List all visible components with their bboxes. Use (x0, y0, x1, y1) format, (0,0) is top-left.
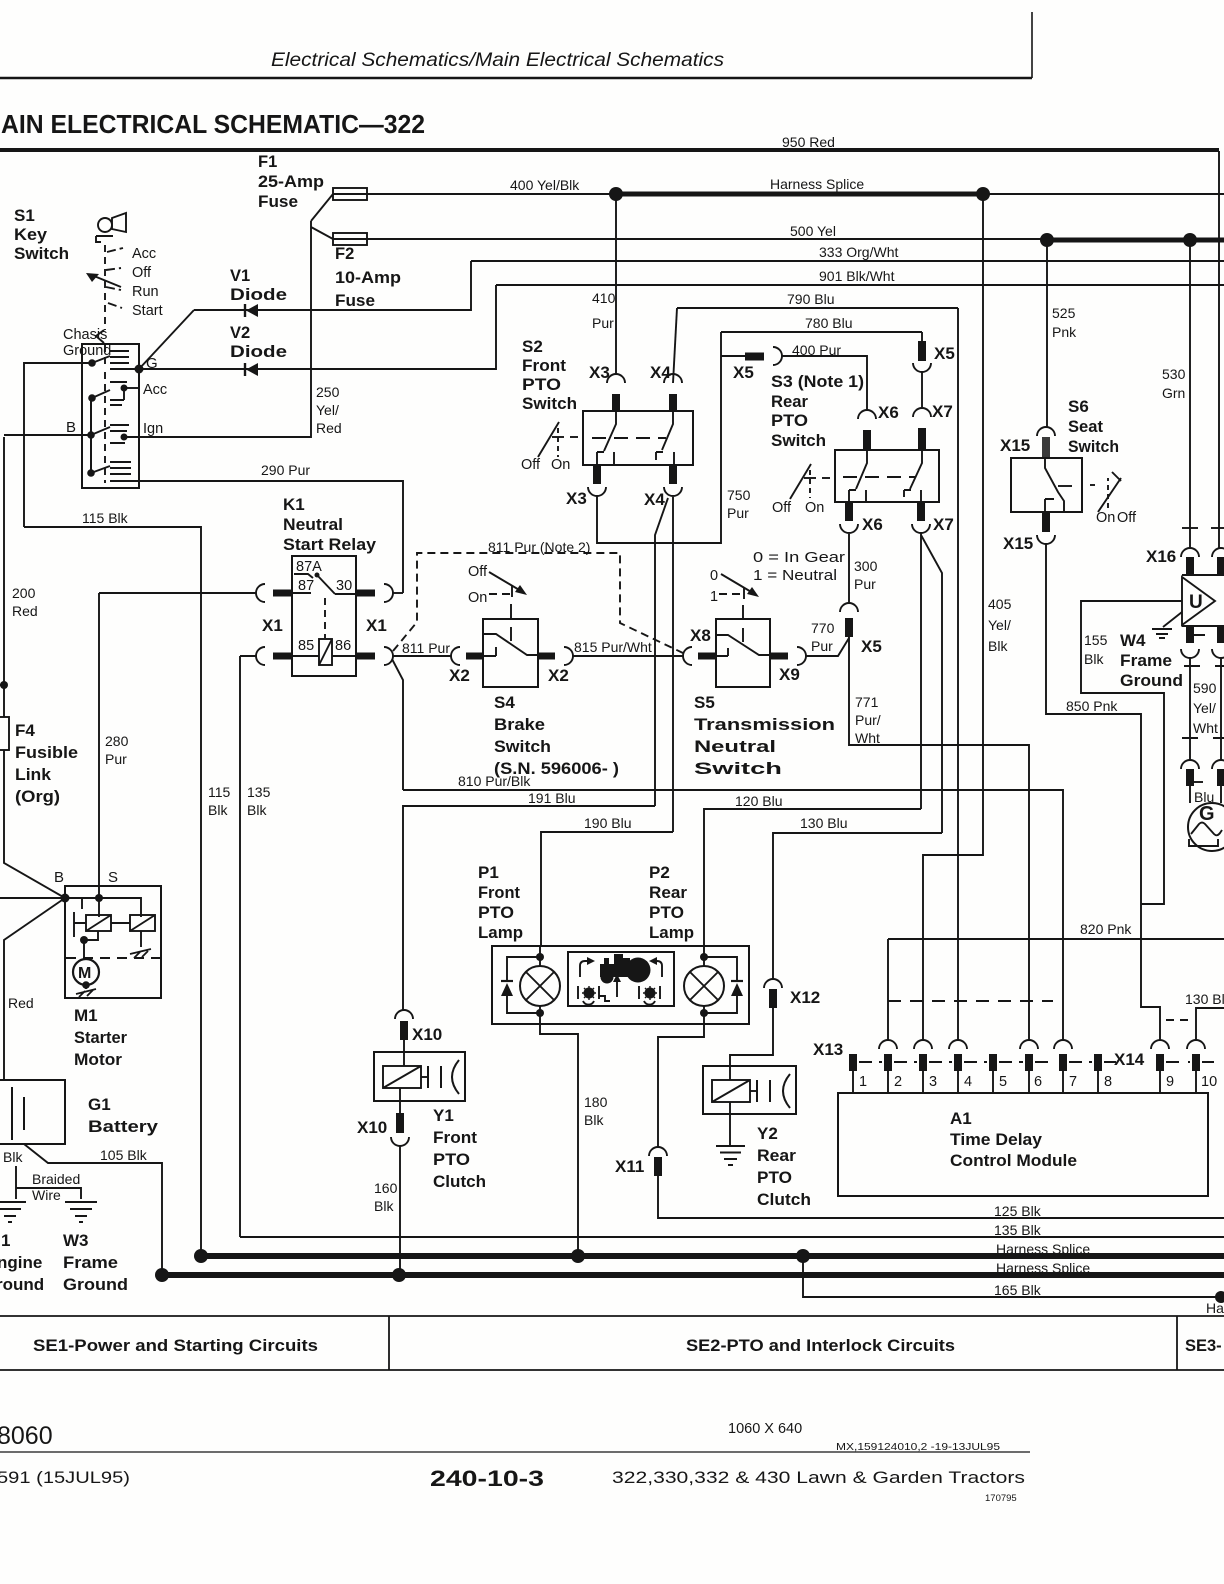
X14 pin 10 (1187, 1040, 1205, 1049)
svg-text:Harness Splice: Harness Splice (770, 176, 864, 192)
svg-text:X7: X7 (932, 402, 953, 421)
S5 labels (694, 693, 835, 778)
junction dot 165 right (1215, 1291, 1224, 1303)
svg-text:X10: X10 (412, 1025, 442, 1044)
svg-text:Clutch: Clutch (757, 1190, 811, 1209)
wire 200 Red (3, 437, 5, 717)
tractor mid link (599, 996, 610, 1001)
svg-text:X2: X2 (548, 666, 569, 685)
footer rule (0, 1451, 1030, 1453)
wire chassis ground from G contact (24, 363, 92, 527)
svg-text:Front: Front (478, 883, 520, 902)
A1 labels (950, 1109, 1077, 1170)
connector X1 left pin87 (256, 584, 265, 602)
S6 selector (1090, 484, 1098, 486)
connector X1 right pin86 (332, 655, 356, 657)
svg-text:F4: F4 (15, 721, 35, 740)
wire 400 Yel/Blk (367, 193, 616, 195)
harness label cut right (1206, 1300, 1224, 1316)
svg-text:591 (15JUL95): 591 (15JUL95) (0, 1469, 130, 1487)
junction dot 500/530 (1183, 233, 1197, 247)
wire 770 Pur (806, 638, 849, 656)
S1 key switch label (14, 206, 69, 263)
wire 410 Pur (615, 194, 617, 374)
connector to generator left (1181, 760, 1199, 769)
junction dot 500/525 (1040, 233, 1054, 247)
connector X16 left tick (1182, 527, 1198, 529)
contact Acc (88, 394, 96, 402)
tractor arrows (580, 961, 590, 977)
wire 790 Blu drop to X4 (673, 308, 677, 383)
wire 135 Blk from pin85 (240, 656, 256, 1237)
P1 diode branch (507, 957, 540, 1013)
svg-text:Yel/: Yel/ (1193, 700, 1216, 716)
Y2 ground (729, 1102, 731, 1145)
Y1 labels (433, 1106, 486, 1191)
svg-text:500 Yel: 500 Yel (790, 223, 836, 239)
svg-text:Y2: Y2 (757, 1124, 778, 1143)
svg-text:190 Blu: 190 Blu (584, 815, 631, 831)
SE band bottom line (0, 1369, 1224, 1371)
svg-text:Ground: Ground (63, 343, 111, 359)
svg-text:On: On (551, 457, 570, 473)
svg-text:Lamp: Lamp (478, 923, 523, 942)
svg-text:250: 250 (316, 384, 340, 400)
svg-text:PTO: PTO (522, 375, 561, 394)
svg-text:Transmission: Transmission (694, 715, 835, 734)
svg-text:770: 770 (811, 620, 835, 636)
wire 780 Blu (721, 331, 922, 333)
svg-text:PTO: PTO (649, 903, 684, 922)
X13 pin 8 (1094, 1054, 1102, 1071)
braided wire bracket (16, 1166, 81, 1199)
svg-text:X3: X3 (566, 489, 587, 508)
svg-text:Time Delay: Time Delay (950, 1130, 1043, 1149)
K1 blade (317, 575, 335, 594)
svg-text:Pur: Pur (592, 315, 614, 331)
wire G to V1 diagonal (139, 310, 194, 369)
svg-text:Brake: Brake (494, 715, 545, 734)
svg-text:Start Relay: Start Relay (283, 535, 377, 554)
svg-text:Switch: Switch (522, 394, 577, 413)
M1 labels (74, 1006, 127, 1069)
svg-text:AIN ELECTRICAL SCHEMATIC—322: AIN ELECTRICAL SCHEMATIC—322 (1, 109, 425, 139)
S2 internal dashed (592, 437, 666, 439)
P2 lamp labels (649, 863, 694, 942)
P1 lamp labels (478, 863, 523, 942)
SE band top line (0, 1315, 1224, 1317)
wire 530 Grn (1189, 240, 1191, 548)
wire 155 Blk (1081, 601, 1182, 904)
K1 pin labels (298, 578, 352, 654)
svg-text:Pur/: Pur/ (855, 712, 881, 728)
wire 180 Blk from P1 (540, 1024, 578, 1256)
svg-text:S: S (108, 869, 118, 886)
svg-text:1060 X 640: 1060 X 640 (728, 1421, 802, 1437)
wire 810 Pur/Blk run (403, 790, 1063, 1040)
svg-text:790 Blu: 790 Blu (787, 291, 834, 307)
svg-text:105 Blk: 105 Blk (100, 1147, 148, 1163)
svg-text:530: 530 (1162, 366, 1186, 382)
K1 armature dashed link (324, 598, 326, 638)
wire 250 Yel/Red vertical from fuses to Ign (139, 221, 311, 437)
S2 selector (538, 422, 559, 457)
svg-text:1: 1 (859, 1074, 867, 1090)
X13 dashes (859, 1061, 1116, 1063)
svg-text:Chasis: Chasis (63, 327, 107, 343)
svg-text:(Org): (Org) (15, 787, 60, 806)
svg-text:Switch: Switch (1068, 437, 1119, 456)
wire F4 to starter B (4, 750, 65, 898)
tractor gear right (645, 988, 656, 999)
svg-text:155: 155 (1084, 632, 1108, 648)
title rule / top border line (0, 148, 1219, 150)
wire 771 Pur/Wht (849, 637, 1029, 1040)
svg-text:X12: X12 (790, 988, 820, 1007)
wire 780 Blu left drop to 750 node (720, 332, 722, 356)
svg-text:X9: X9 (779, 665, 800, 684)
lamp P2 (703, 946, 705, 1013)
svg-text:Diode: Diode (230, 286, 287, 304)
svg-text:1: 1 (1, 1231, 10, 1250)
footer texts (0, 1421, 1025, 1504)
wire 130 Blk right (1196, 1008, 1224, 1040)
svg-text:X10: X10 (357, 1118, 387, 1137)
svg-text:X1: X1 (262, 616, 283, 635)
bus1 dot 165 (796, 1249, 810, 1263)
svg-text:Wht: Wht (855, 730, 880, 746)
wire 191 Blu (403, 806, 655, 1010)
svg-text:3: 3 (929, 1074, 937, 1090)
contact St (87, 469, 95, 477)
wire 280 Pur (98, 593, 100, 898)
connector X16 right (1212, 548, 1224, 557)
svg-text:Rear: Rear (757, 1146, 796, 1165)
svg-text:5: 5 (999, 1074, 1007, 1090)
X13 pin 5 (989, 1054, 997, 1071)
X13 pin 4 (949, 1040, 967, 1049)
S3 labels (771, 372, 864, 450)
wire X7 bottom diagonal to 130 Blu (921, 535, 942, 833)
svg-text:X7: X7 (933, 515, 954, 534)
svg-text:Red: Red (316, 420, 342, 436)
svg-text:Blk: Blk (208, 802, 228, 818)
connector X3 top (589, 363, 610, 382)
svg-text:Front: Front (433, 1128, 477, 1147)
S2 pole1 blade (604, 412, 616, 451)
diode V2 (230, 324, 287, 361)
svg-text:Front: Front (522, 356, 566, 375)
contact G (88, 359, 96, 367)
connector X16 left (1181, 548, 1199, 557)
svg-text:SE3-: SE3- (1185, 1337, 1222, 1355)
svg-text:130 Blu: 130 Blu (800, 815, 847, 831)
svg-text:811 Pur: 811 Pur (402, 640, 450, 656)
svg-text:135 Blk: 135 Blk (994, 1222, 1042, 1238)
svg-text:300: 300 (854, 558, 878, 574)
svg-text:X3: X3 (589, 363, 610, 382)
diode V1 (230, 267, 287, 304)
svg-text:Off: Off (1117, 510, 1137, 526)
wire 820 Pnk (888, 938, 1224, 940)
wire 750 Pur from X3 bottom (597, 356, 721, 543)
connector X3 bottom (593, 465, 601, 484)
footer part number 8060 (0, 1422, 53, 1450)
svg-text:Wht: Wht (1193, 720, 1218, 736)
key position labels (132, 246, 163, 319)
svg-text:Blk: Blk (584, 1112, 604, 1128)
wire 115/135 Blk column labels (208, 784, 271, 818)
svg-text:Rear: Rear (649, 883, 687, 902)
S4 armature stubs (510, 604, 512, 641)
connector X8 (683, 647, 692, 665)
fuse F1 left lead (311, 194, 333, 221)
key position fan dashes (106, 248, 123, 308)
wire 780 Blu right drop to X5 (921, 332, 923, 341)
svg-text:590: 590 (1193, 680, 1217, 696)
header italic running title (271, 49, 724, 71)
svg-text:round: round (0, 1275, 44, 1294)
svg-text:Pur: Pur (105, 751, 127, 767)
svg-text:M: M (78, 965, 91, 982)
wire B into switch (4, 434, 91, 436)
connector X7 bottom (917, 502, 925, 521)
connector X15 top (1037, 427, 1055, 436)
starter solenoid coil 2 (111, 922, 130, 924)
svg-text:G: G (146, 355, 158, 372)
wire 105 Blk (24, 1144, 162, 1275)
svg-text:X4: X4 (644, 490, 665, 509)
svg-text:Off: Off (772, 500, 792, 516)
svg-text:Clutch: Clutch (433, 1172, 486, 1191)
W3 labels (63, 1231, 128, 1294)
connector X5 above S5 (845, 618, 853, 637)
svg-text:S5: S5 (694, 693, 715, 712)
wire X7 bottom to 120 Blu (920, 533, 922, 809)
svg-text:X11: X11 (615, 1157, 644, 1176)
svg-text:PTO: PTO (771, 411, 808, 430)
svg-text:Wire: Wire (32, 1187, 61, 1203)
svg-text:P2: P2 (649, 863, 670, 882)
wire 901 Blk/Wht (496, 284, 1224, 286)
wire 950 Red right drop (1218, 151, 1220, 548)
X13 pin 6 (1020, 1040, 1038, 1049)
X13 pin 3 (914, 1040, 932, 1049)
fuse F2 (333, 233, 367, 245)
S5 selector 0/1 (710, 568, 718, 605)
wire 850 Pnk (1046, 544, 1160, 1040)
X13 pin 1 (849, 1054, 857, 1071)
svg-text:W3: W3 (63, 1231, 89, 1250)
key icon (98, 218, 112, 232)
label B (66, 419, 76, 436)
svg-text:Yel/: Yel/ (988, 617, 1011, 633)
svg-text:Pnk: Pnk (1052, 324, 1077, 340)
connector X10 lower (396, 1113, 404, 1133)
connector X1 right pin30 (356, 590, 375, 597)
svg-text:X6: X6 (862, 515, 883, 534)
battery plates (12, 1087, 24, 1140)
svg-text:Pur: Pur (854, 576, 876, 592)
svg-text:810 Pur/Blk: 810 Pur/Blk (458, 773, 531, 789)
connector X16 right tick (1211, 527, 1224, 529)
S3 internal dashed (843, 476, 915, 478)
S1 key switch box (82, 344, 139, 488)
key selector arrow (94, 276, 121, 287)
svg-text:8: 8 (1104, 1074, 1112, 1090)
svg-text:Red: Red (8, 995, 34, 1011)
wire 525 Pnk (1046, 240, 1048, 428)
svg-text:X14: X14 (1114, 1050, 1145, 1069)
Y2 clutch box (703, 1066, 796, 1114)
svg-text:Start: Start (132, 303, 163, 319)
W3 frame ground symbol (65, 1202, 97, 1222)
svg-text:S2: S2 (522, 337, 543, 356)
starter internal dashed (66, 957, 160, 959)
svg-text:Key: Key (14, 225, 48, 244)
wire 400 Yel/Blk right portion (983, 193, 1224, 195)
svg-text:Starter: Starter (74, 1028, 127, 1047)
svg-text:Harness Splice: Harness Splice (996, 1260, 1090, 1276)
svg-text:Blk: Blk (247, 802, 267, 818)
wire 125 Blk from X11 (658, 1176, 1224, 1218)
SE band divider SE1/SE2 (388, 1316, 390, 1370)
wire 135 Blk bottom run (240, 1236, 1224, 1238)
S3 selector (790, 464, 811, 499)
svg-text:901 Blk/Wht: 901 Blk/Wht (819, 268, 895, 284)
svg-text:280: 280 (105, 733, 129, 749)
svg-text:4: 4 (964, 1074, 972, 1090)
svg-text:820 Pnk: 820 Pnk (1080, 921, 1132, 937)
svg-text:7: 7 (1069, 1074, 1077, 1090)
svg-text:PTO: PTO (478, 903, 514, 922)
svg-text:Neutral: Neutral (694, 737, 776, 756)
X14 pin 9 (1151, 1040, 1169, 1049)
svg-text:Ground: Ground (1120, 671, 1183, 690)
contact Ign (87, 431, 95, 439)
svg-text:X13: X13 (813, 1040, 843, 1059)
svg-text:Harness Splice: Harness Splice (996, 1241, 1090, 1257)
svg-text:X1: X1 (366, 616, 387, 635)
Y2 coil (729, 1066, 731, 1080)
svg-text:B: B (54, 869, 64, 886)
connector X6 bottom (845, 502, 853, 521)
wire X5 to X7 (921, 372, 923, 408)
bus2 dot 160 (392, 1268, 406, 1282)
svg-text:Control Module: Control Module (950, 1151, 1077, 1170)
svg-text:Pur: Pur (811, 638, 833, 654)
svg-text:30: 30 (336, 578, 352, 594)
starter coil1 to motor (84, 931, 98, 959)
connector X5 right top (918, 341, 926, 361)
wire 790 Blu (677, 307, 958, 309)
S5 contact and blade (716, 635, 770, 655)
svg-text:Ha: Ha (1206, 1300, 1224, 1316)
starter motor M (73, 959, 99, 985)
connector X10 upper (395, 1010, 413, 1019)
svg-text:Link: Link (15, 765, 52, 784)
svg-text:Switch: Switch (771, 431, 826, 450)
svg-text:Blk: Blk (988, 638, 1008, 654)
svg-text:Off: Off (132, 265, 152, 281)
svg-text:Seat: Seat (1068, 417, 1103, 436)
svg-text:180: 180 (584, 1094, 608, 1110)
tractor silhouette (600, 954, 651, 984)
S5 box (716, 619, 770, 687)
battery G1 box (0, 1080, 65, 1144)
bus2 dot 105 (155, 1268, 169, 1282)
P2 diode branch (704, 957, 737, 1013)
S2 pole2 blade (662, 412, 673, 450)
svg-text:6: 6 (1034, 1074, 1042, 1090)
X13 label (813, 1040, 843, 1059)
svg-text:Fusible: Fusible (15, 743, 78, 762)
wire 590 Yel/Wht pair (1184, 665, 1224, 667)
tractor gear left (584, 988, 595, 999)
connector X7 top (913, 408, 931, 417)
svg-text:Switch: Switch (14, 244, 69, 263)
X14 label (1114, 1050, 1145, 1069)
wire 290 Pur St to K1 pin30 (110, 481, 403, 593)
svg-text:771: 771 (855, 694, 879, 710)
connector X5 left of S3 (721, 355, 745, 357)
svg-text:Y1: Y1 (433, 1106, 454, 1125)
svg-text:S4: S4 (494, 693, 515, 712)
svg-text:950 Red: 950 Red (782, 134, 835, 150)
svg-text:0: 0 (710, 568, 718, 584)
SE band divider SE2/SE3 (1176, 1316, 1178, 1370)
svg-text:Pur: Pur (727, 505, 749, 521)
svg-text:Electrical Schematics/Main Ele: Electrical Schematics/Main Electrical Sc… (271, 49, 724, 71)
S4 selector (489, 572, 521, 591)
S2 labels (522, 337, 577, 413)
starter coil2 ground (140, 931, 142, 947)
starter solenoid coil 1 (74, 912, 86, 937)
battery Blk label (3, 1149, 23, 1165)
svg-text:10: 10 (1201, 1074, 1217, 1090)
wire Y1 coil to X10 lower (399, 1088, 401, 1113)
lamp P1 (539, 946, 541, 1024)
svg-text:1: 1 (710, 589, 718, 605)
svg-text:10-Amp: 10-Amp (335, 269, 401, 287)
connector X4 top (650, 363, 671, 382)
svg-text:290 Pur: 290 Pur (261, 462, 310, 478)
svg-text:87A: 87A (296, 559, 322, 575)
bus1 dot 180 (571, 1249, 585, 1263)
wire X12 to Y2 (730, 1008, 773, 1066)
svg-text:Fuse: Fuse (335, 292, 375, 310)
wire 130 Blu (773, 833, 942, 979)
svg-text:X2: X2 (449, 666, 470, 685)
S4 brake switch labels (494, 693, 619, 778)
svg-text:Rear: Rear (771, 392, 808, 411)
svg-text:U: U (1189, 592, 1203, 613)
svg-text:F1: F1 (258, 153, 277, 171)
wire B stub left (0, 897, 65, 899)
svg-text:S3 (Note 1): S3 (Note 1) (771, 372, 864, 391)
svg-text:Motor: Motor (74, 1050, 122, 1069)
svg-text:Blk: Blk (374, 1198, 394, 1214)
svg-text:Off: Off (468, 564, 488, 580)
X14 dashes (1166, 1061, 1214, 1063)
svg-text:X5: X5 (861, 637, 882, 656)
A1 time delay control module box (838, 1093, 1208, 1196)
svg-text:87: 87 (298, 578, 314, 594)
connector X12 (764, 979, 782, 988)
wire 190 Blu (541, 832, 673, 946)
svg-text:Off: Off (521, 457, 541, 473)
svg-text:115: 115 (208, 784, 231, 800)
